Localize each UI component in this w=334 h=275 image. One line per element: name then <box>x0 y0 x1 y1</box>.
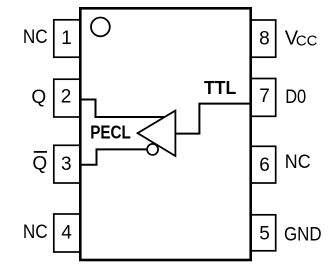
pin-1 indicator circle <box>91 18 110 37</box>
pin 6 box <box>251 146 276 183</box>
buffer/translator triangle U1a <box>138 111 176 156</box>
overline of Q-bar <box>34 151 47 153</box>
svg-text:5: 5 <box>259 224 270 245</box>
svg-text:2: 2 <box>61 87 72 108</box>
pin 4 box <box>54 214 81 252</box>
svg-text:3: 3 <box>61 154 72 175</box>
svg-text:PECL: PECL <box>90 123 131 143</box>
svg-text:NC: NC <box>23 222 48 243</box>
svg-text:Q: Q <box>31 87 46 108</box>
svg-text:NC: NC <box>285 152 311 173</box>
IC body U1 <box>80 8 250 260</box>
svg-text:6: 6 <box>259 155 270 176</box>
pin 8 box <box>251 20 276 57</box>
svg-text:1: 1 <box>61 28 72 49</box>
pin 5 box <box>251 215 276 251</box>
pin 1 box <box>54 20 81 57</box>
svg-text:7: 7 <box>259 86 270 107</box>
svg-text:TTL: TTL <box>204 78 236 98</box>
inversion bubble on Q-bar output <box>147 144 158 155</box>
pin 7 box <box>251 79 276 117</box>
wire from pin 3 (Q-bar) to inversion bubble <box>80 149 147 164</box>
pin 2 box <box>54 79 81 117</box>
pin 3 box <box>54 145 81 183</box>
svg-text:4: 4 <box>61 222 72 243</box>
svg-text:GND: GND <box>284 225 322 246</box>
svg-text:NC: NC <box>23 27 48 48</box>
svg-text:D0: D0 <box>285 87 306 108</box>
wire from pin 2 (Q) to buffer upper output <box>80 100 165 118</box>
svg-text:8: 8 <box>259 28 270 49</box>
svg-text:CC: CC <box>296 32 318 49</box>
wire from pin 7 (D0) to buffer input <box>175 104 250 134</box>
svg-text:Q: Q <box>32 154 47 175</box>
